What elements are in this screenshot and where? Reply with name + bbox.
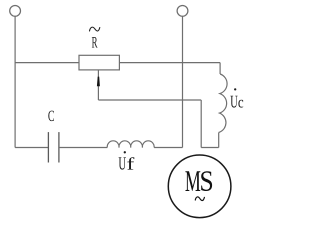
motor MS (circle with MS ~) xyxy=(168,155,231,218)
wire: wiper to Uc bottom xyxy=(201,147,219,149)
wire: wiper stem (resistor bottom to wiper wire) xyxy=(97,70,99,100)
wire: wiper vertical drop xyxy=(200,100,202,148)
label ~ (tilde over R) xyxy=(90,27,100,31)
label R xyxy=(92,37,98,48)
wire: top bus left (T1 line to resistor) xyxy=(15,62,79,64)
inductor Uf (4 bumps, bulge up) xyxy=(107,141,154,148)
wire: Uc top lead xyxy=(219,63,221,74)
arrowhead of wiper (points up at R) xyxy=(97,77,100,87)
wire: Uc bottom lead xyxy=(218,133,220,148)
wire: right vertical from T2 down to bottom bus xyxy=(182,16,184,147)
label Uc (phasor dot over U) xyxy=(230,88,243,107)
wire: bottom bus right (Uf to T2 line) xyxy=(154,147,182,149)
label Uf (phasor dot over U) xyxy=(119,151,135,169)
resistor R (rheostat box) xyxy=(79,55,119,70)
wire: top bus right (resistor to Uc corner) xyxy=(119,62,220,64)
label C xyxy=(48,111,54,122)
wire: bottom bus left (T1 line to capacitor) xyxy=(15,147,48,149)
wire: bottom bus middle (capacitor to Uf) xyxy=(59,147,107,149)
wire: wiper horizontal run xyxy=(98,99,201,101)
terminal T1 (top-left) xyxy=(10,5,21,16)
wire: left vertical from T1 down to bottom bus xyxy=(14,16,16,147)
capacitor C (two plates) xyxy=(48,132,59,162)
inductor Uc (3 bumps, bulge right) xyxy=(219,74,227,133)
terminal T2 (top-right) xyxy=(177,5,188,16)
